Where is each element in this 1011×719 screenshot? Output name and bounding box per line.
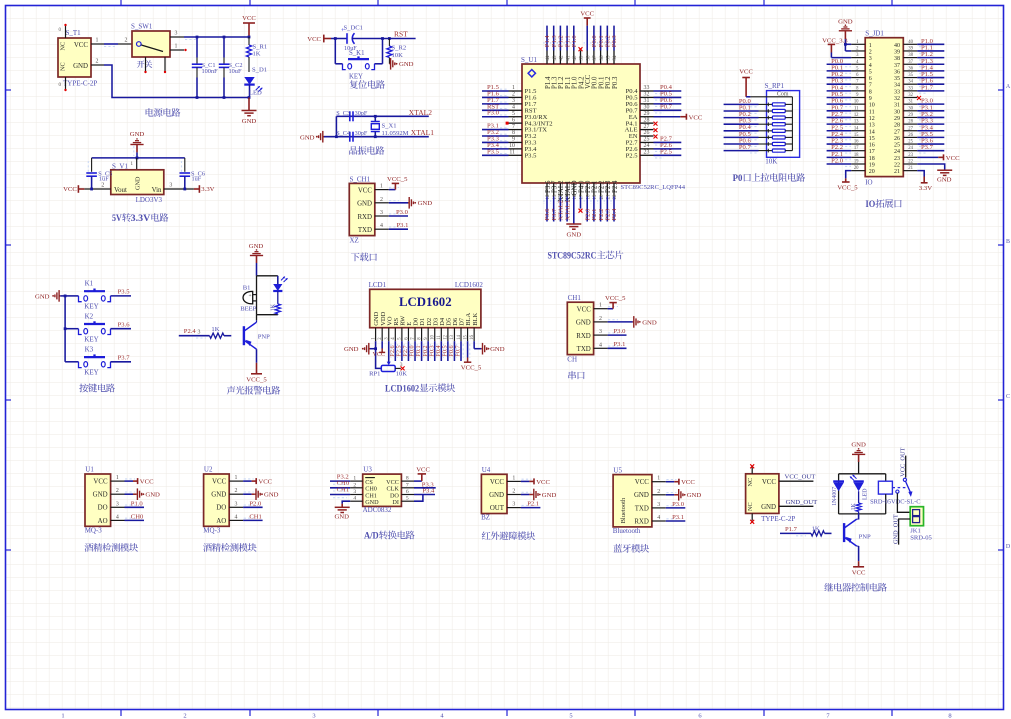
power port VCC at EA [680,116,686,118]
svg-text:S_K1: S_K1 [349,50,365,57]
pin U1.8 P3.2 [509,135,523,137]
svg-text:32: 32 [908,93,913,98]
pin U1.22 P2.4 bottom [613,183,615,197]
svg-text:S_CH1: S_CH1 [350,176,371,184]
wire LCD VDD pin2 to VCC [381,341,383,348]
svg-text:GND: GND [357,201,372,208]
svg-text:P3.6: P3.6 [118,321,131,328]
no-connect JD1 pin32 [917,96,921,100]
pin CH1.1 [594,308,608,310]
svg-text:8: 8 [869,89,872,95]
pin S_SW1.2 [118,43,132,45]
svg-text:VCC: VCC [681,479,695,486]
svg-text:P1.7: P1.7 [921,84,934,91]
wire bottom XTAL1 [566,197,568,222]
resistor RP1 element 3 [759,117,773,119]
node junction VCC rail [248,36,251,39]
decor dashes ldo [133,146,135,156]
wire P0.4 pullup [724,130,759,132]
svg-text:VCC_5: VCC_5 [246,377,267,384]
node junction crystal top [374,115,377,118]
svg-text:24: 24 [908,146,913,151]
svg-text:C: C [1006,394,1010,400]
svg-text:XTAL1: XTAL1 [564,200,571,220]
wire left P1.7 [482,103,509,105]
svg-text:KEY: KEY [84,335,98,343]
svg-text:RXD: RXD [357,214,372,221]
svg-text:39: 39 [894,49,900,55]
pin U1.4 RST [509,109,523,111]
svg-text:P2.4: P2.4 [612,180,619,193]
wire U3 CLK P3.3 [414,487,436,489]
pin LCD1.8 D1 [421,328,423,342]
svg-text:VCC: VCC [536,479,550,486]
svg-text:GND: GND [249,243,264,250]
svg-text:Vout: Vout [114,187,127,194]
svg-text:VCC: VCC [689,114,703,121]
svg-text:P2.0: P2.0 [249,500,262,507]
svg-text:GND: GND [761,504,776,511]
wire P1.7 JD1 right [917,90,944,92]
svg-text:3: 3 [869,56,872,62]
resistor S_R1 1K [248,37,250,45]
wire LCD GND pin1 [375,341,377,349]
svg-text:6: 6 [512,117,515,123]
wire LCD BLA pin15 to VCC_5 [467,341,469,357]
svg-text:VCC: VCC [373,352,385,358]
svg-text:33: 33 [644,85,650,91]
svg-text:31: 31 [894,103,900,109]
svg-text:1: 1 [116,475,119,481]
power port GND serial [633,321,634,323]
wire P0.7 to JD1 [827,110,852,112]
svg-text:33: 33 [894,89,900,95]
svg-text:26: 26 [644,130,650,136]
svg-text:27: 27 [644,124,650,130]
svg-text:BEEP: BEEP [240,306,256,313]
svg-text:A/D: A/D [364,532,379,542]
svg-text:10K: 10K [392,52,404,59]
capacitor S_C6 1uF [184,158,186,172]
ADC U3 ADC0832 body [363,474,402,506]
resistor 1K relay led [858,491,860,503]
pin U1.25 P2.7 [640,141,654,143]
wire right P0.4 [654,90,682,92]
pin U5.1 VCC [652,481,666,483]
svg-text:BLK: BLK [472,312,479,325]
relay switch common VCC_OUT [905,456,907,478]
power port VCC_5 download [389,189,396,191]
pin U1.2 GND [111,493,125,495]
svg-text:P0.7: P0.7 [660,103,673,110]
pin JD1.39 [903,50,917,52]
svg-text:S_R2: S_R2 [392,45,407,52]
pin U1.2 P1.6 [509,96,523,98]
svg-text:ADC0832: ADC0832 [363,506,392,514]
svg-text:VCC_5: VCC_5 [837,185,858,192]
no-connect P4.3/INT2 [506,122,509,125]
wire U3 CH1 [330,494,350,496]
power port 3.3V JD1 [923,177,925,183]
svg-text:24: 24 [644,143,650,149]
wire P2.3 to JD1 [827,143,852,145]
svg-text:PNP: PNP [258,334,270,341]
wire bottom P2.3 [606,197,608,222]
svg-text:A: A [1006,84,1011,90]
pin JD1.15 [851,136,865,138]
power port GND U1 [136,493,137,495]
wire LCD VO pin3 to pot wiper [388,341,390,361]
svg-text:S_D1: S_D1 [252,67,267,74]
svg-text:VCC: VCC [635,479,650,486]
wire P3.1 JD1 right [917,110,944,112]
svg-text:9: 9 [512,137,515,143]
title hongwai bizhang module [482,531,491,539]
svg-text:P0: P0 [733,174,743,184]
svg-text:3: 3 [512,98,515,104]
node junction key right [381,37,384,40]
wire GND to pins 1 2 [844,39,846,51]
svg-text:Bluetooth: Bluetooth [620,497,627,523]
pin LCD1.10 D3 [434,328,436,342]
svg-text:12: 12 [854,113,859,118]
svg-text:KEY: KEY [349,74,363,81]
svg-text:U2: U2 [204,466,213,474]
title xiazaikou download port [351,253,360,261]
svg-text:13: 13 [450,334,455,339]
title lanya module [613,544,622,552]
wire right P2.6 [654,148,682,150]
svg-text:TXD: TXD [358,227,372,234]
wire LCD D3 [434,341,436,361]
svg-text:32: 32 [644,92,650,98]
svg-text:VCC: VCC [307,36,321,43]
svg-text:RXD: RXD [634,518,649,525]
wire P0.7 pullup [724,150,759,152]
wire left P3.1 [482,129,509,131]
pin VCC_OUT [779,480,814,482]
svg-text:7: 7 [512,124,515,130]
svg-text:6: 6 [406,489,409,495]
pin JD1.16 [851,143,865,145]
svg-text:3: 3 [512,502,515,508]
svg-text:NC: NC [747,502,754,511]
wire LCD D7 [460,341,462,361]
svg-text:39: 39 [580,55,585,61]
svg-text:3: 3 [169,183,172,189]
pin JD1.24 [903,150,917,152]
wire LCD D4 [440,341,442,361]
svg-text:DO: DO [216,505,226,512]
pin U3.4 GND [350,500,363,502]
pin U2.3 DO [229,506,243,508]
svg-text:23: 23 [894,156,900,162]
svg-text:1K: 1K [253,51,261,58]
pin JD1.21 [903,170,917,172]
pin CH1.3 [594,334,608,336]
pin U1.33 P0.4 [640,90,654,92]
wire P0.2 to JD1 [827,77,852,79]
svg-text:K3: K3 [85,346,94,354]
resistor RP1 element 6 [759,136,773,138]
power port VCC U5 [674,481,679,483]
svg-text:NC: NC [60,62,67,71]
title relay control circuit [824,583,833,591]
wire U5 VCC [666,481,675,483]
svg-text:RXD: RXD [576,333,591,340]
node junction C5 [90,188,93,191]
connector TYPE-C-2P relay [746,474,779,514]
svg-text:5: 5 [869,69,872,75]
svg-text:S_V1: S_V1 [112,163,128,171]
svg-text:4: 4 [599,342,602,348]
pin JD1.34 [903,83,917,85]
wire contact to JK1 pin1 [897,493,910,512]
svg-text:32: 32 [894,96,900,102]
svg-text:10K: 10K [765,158,777,166]
pin U1.3 P1.7 [509,103,523,105]
pin U1.11 P3.5 [509,154,523,156]
pin S_CH1.3 [375,215,389,217]
pin U1.23 P2.5 [640,154,654,156]
wire TXD P3.1 [389,228,408,230]
svg-text:40: 40 [894,43,900,49]
svg-text:NC: NC [60,42,67,51]
wire left RST [482,109,509,111]
svg-text:44: 44 [546,55,551,61]
svg-text:1: 1 [599,303,602,309]
svg-text:34: 34 [908,80,913,85]
svg-text:Vin: Vin [152,187,162,194]
svg-text:37: 37 [908,60,913,65]
svg-text:1K: 1K [271,303,277,311]
svg-text:GND: GND [93,492,108,499]
svg-text:GND: GND [576,320,591,327]
module U1 MQ-3 body [85,474,111,526]
LCD1 module body [370,289,481,327]
svg-text:SRD-05VDC-SL-C: SRD-05VDC-SL-C [870,498,920,505]
pin U1.5 P3.0/RX [509,116,523,118]
svg-text:3: 3 [657,502,660,508]
wire LCD gnd to pot [376,349,382,369]
power port VCC U4 [529,480,534,482]
svg-text:S_U1: S_U1 [521,56,537,64]
svg-text:P3.5: P3.5 [525,152,538,159]
resistor RP1 element 8 [759,150,773,152]
svg-text:DI: DI [392,499,399,506]
svg-text:U3: U3 [363,465,372,473]
wire bottom XTAL2 [559,197,561,222]
svg-text:VCC: VCC [852,570,866,577]
svg-text:S_JD1: S_JD1 [865,30,884,38]
svg-text:GND_OUT: GND_OUT [786,499,818,506]
svg-text:1uF: 1uF [192,175,202,182]
pin U1.21 P2.3 bottom [606,183,608,197]
svg-text:1K: 1K [812,525,820,532]
svg-text:16: 16 [854,140,859,145]
pin JD1.5 [851,70,865,72]
wire S_T1 to S_SW1 [104,43,118,45]
svg-text:4: 4 [512,104,515,110]
svg-text:LDO3V3: LDO3V3 [136,196,163,204]
pin U1.40 P1.0 top [573,51,575,65]
svg-text:GND: GND [851,442,866,449]
wire gnd to relay frame [858,462,860,474]
pin JD1.11 [851,110,865,112]
MCU U1 STC89C52RC body [522,64,640,183]
wire top P1.4 [546,26,548,51]
pin U1.9 P3.3 [509,141,523,143]
wire gnd rail over LDO [92,157,185,159]
resistor RP1 element 5 [759,130,773,132]
wire key right drop [382,39,384,64]
node junction key left [334,37,337,40]
svg-text:22: 22 [894,163,900,169]
svg-text:VCC_5: VCC_5 [605,295,626,302]
svg-text:GND: GND [365,499,379,506]
svg-text:2: 2 [116,488,119,494]
pin U1.35 P0.2 top [606,51,608,65]
wire U3 CS [330,480,350,482]
svg-text:4: 4 [380,223,383,229]
svg-text:13: 13 [869,123,875,129]
svg-text:+: + [249,293,252,299]
wire left P3.4 [482,148,509,150]
LED S_D1 [244,77,254,85]
svg-text:4: 4 [235,514,238,520]
svg-text:P3.1: P3.1 [614,341,626,348]
svg-text:P0.7: P0.7 [455,345,462,356]
resistor RP1 element 1 [759,103,773,105]
svg-text:5: 5 [512,111,515,117]
svg-text:2: 2 [96,59,99,65]
pin U1.43 P1.3 top [553,51,555,65]
svg-text:Com: Com [777,91,789,97]
svg-text:GND: GND [145,492,160,499]
wire JD1 pin20 to VCC_5 [846,171,852,179]
wire top rail to VCC [184,36,249,38]
wire CH1 TXD [608,347,627,349]
pin U5.3 TXD [652,507,666,509]
wire U3 VCC [414,480,422,482]
power port VCC_5 JD1 [845,178,847,182]
pin S_T1 bottom NC [65,77,67,90]
wire P0.5 to JD1 [827,97,852,99]
pin RP1 com [750,96,766,98]
svg-text:Bluetooth: Bluetooth [613,527,641,535]
svg-text:15: 15 [869,136,875,142]
svg-text:23: 23 [908,153,913,158]
pin JD1.40 [903,43,917,45]
pin U1.19 P2.1 bottom [593,183,595,197]
svg-text:100nF: 100nF [202,68,219,75]
node junction C1 bottom [196,96,199,99]
wire left P1.6 [482,96,509,98]
power port VCC JD1 [938,156,943,158]
svg-text:GND: GND [937,177,952,184]
wire U4 VCC [521,480,530,482]
svg-text:27: 27 [908,126,913,131]
decor dashes top [543,42,545,46]
svg-text:B1: B1 [243,285,251,292]
svg-text:RP1: RP1 [369,370,380,377]
wire U5 GND [666,494,675,496]
label kaiguan switch [137,60,145,67]
pin U1.32 P0.5 [640,96,654,98]
wire P0.1 pullup [724,110,759,112]
pin U1.31 P0.6 [640,103,654,105]
svg-text:4: 4 [869,63,872,69]
svg-text:6: 6 [869,76,872,82]
wire U1 P1.0 [125,506,145,508]
svg-text:P2.4: P2.4 [611,208,618,221]
wire key left drop [334,39,336,64]
wire right P0.7 [654,109,682,111]
pin JD1.26 [903,136,917,138]
svg-text:25: 25 [894,143,900,149]
svg-text:1: 1 [512,475,515,481]
wire right P0.6 [654,103,682,105]
svg-text:GND: GND [344,346,359,353]
svg-text:DO: DO [98,505,108,512]
wire XTAL1 rail [324,136,429,138]
wire right P2.5 [654,154,682,156]
svg-text:AO: AO [216,518,226,525]
svg-text:1N4007: 1N4007 [832,487,838,506]
pin U1.34 P0.3 top [613,51,615,65]
pin U1.37 P0.0 top [593,51,595,65]
svg-text:21: 21 [894,169,900,175]
svg-text:P1.0: P1.0 [571,35,578,48]
pin LCD1.5 RW [401,328,403,342]
svg-text:23: 23 [644,150,650,156]
resistor 1K base alarm [179,335,210,337]
power port GND U4 [533,494,534,496]
pin JD1.3 [851,57,865,59]
wire P3.4 JD1 right [917,130,944,132]
svg-text:40: 40 [573,55,578,61]
svg-text:S_RP1: S_RP1 [765,82,785,90]
svg-text:1K: 1K [851,502,857,510]
power port GND reset [389,63,390,65]
wire P1.2 JD1 right [917,57,944,59]
wire P3.2 JD1 right [917,116,944,118]
svg-text:GND: GND [489,492,504,499]
resistor RP1 element 7 [759,143,773,145]
wire P1.3 JD1 right [917,63,944,65]
power port VCC relay [858,561,860,567]
wire P2.0 to JD1 [827,163,852,165]
svg-text:2: 2 [869,49,872,55]
svg-text:29: 29 [894,116,900,122]
power port GND U5 [678,494,679,496]
wire left riser [335,116,337,136]
svg-text:25: 25 [644,137,650,143]
pin JD1.19 [851,163,865,165]
svg-text:14: 14 [854,126,859,131]
connector S_JD1 body [865,38,903,177]
svg-text:VCC: VCC [140,479,154,486]
connector JK1 body [910,507,923,526]
svg-text:41: 41 [566,55,571,61]
relay contact dashed link [892,487,908,489]
pin JD1.23 [903,156,917,158]
pin JD1.32 [903,97,917,99]
svg-text:LED: LED [249,90,262,97]
diode D 1N4007 [833,480,844,482]
wire bottom P2.0 [586,197,588,222]
pin JD1.29 [903,116,917,118]
